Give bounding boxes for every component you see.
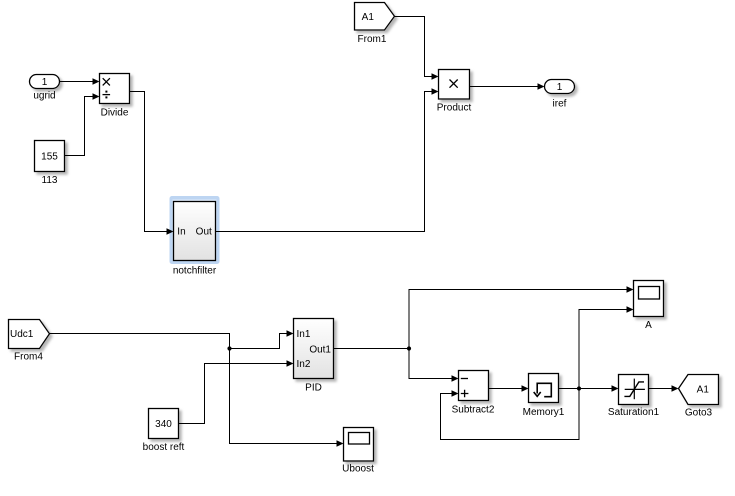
svg-text:notchfilter: notchfilter xyxy=(173,266,217,277)
subsystem notchfilter xyxy=(174,202,216,261)
svg-text:Udc1: Udc1 xyxy=(10,329,34,340)
svg-text:Goto3: Goto3 xyxy=(685,408,713,419)
svg-text:A1: A1 xyxy=(697,385,710,396)
junction dot on Udc1 wire xyxy=(227,346,231,350)
svg-text:Subtract2: Subtract2 xyxy=(452,405,495,416)
outport iref xyxy=(545,80,575,94)
svg-text:Divide: Divide xyxy=(101,108,129,119)
wire Subtract2 output to Memory1 xyxy=(489,385,529,392)
svg-text:PID: PID xyxy=(305,383,322,394)
scope Uboost xyxy=(344,428,374,462)
wire Product output to iref outport xyxy=(470,83,545,90)
wire Saturation1 output to Goto3 xyxy=(649,385,679,392)
wire feedback junction down and around to Subtract2 plus input xyxy=(441,389,580,440)
constant 340 boost reft xyxy=(149,409,179,439)
subsystem notchfilter selection halo xyxy=(170,196,220,264)
wire Divide output to notchfilter In xyxy=(130,92,174,235)
svg-text:155: 155 xyxy=(41,152,58,163)
svg-text:From1: From1 xyxy=(358,34,387,45)
svg-text:From4: From4 xyxy=(14,352,43,363)
wire 340 constant to PID In2 xyxy=(179,360,294,423)
block Memory1 xyxy=(529,374,559,403)
svg-text:113: 113 xyxy=(42,175,58,186)
svg-text:340: 340 xyxy=(155,419,172,430)
svg-text:Memory1: Memory1 xyxy=(523,407,565,418)
svg-text:Product: Product xyxy=(437,103,472,114)
svg-text:In2: In2 xyxy=(297,359,311,370)
wire From1 to Product input 1 xyxy=(395,17,439,80)
svg-text:Out1: Out1 xyxy=(309,345,331,356)
svg-text:Saturation1: Saturation1 xyxy=(608,407,660,418)
svg-text:ugrid: ugrid xyxy=(33,91,55,102)
wire junction up to scope A input 2 xyxy=(579,306,634,388)
svg-text:1: 1 xyxy=(42,77,48,88)
svg-text:A: A xyxy=(645,320,652,331)
svg-text:In: In xyxy=(177,227,185,238)
junction dot on PID output wire xyxy=(407,346,411,350)
wire ugrid to Divide input 1 xyxy=(60,78,100,85)
from tag Udc1 From4 xyxy=(9,320,50,349)
wire junction up to scope A input 1 xyxy=(409,286,634,348)
scope A xyxy=(634,281,664,317)
wire PID Out1 to junction xyxy=(334,348,410,350)
svg-text:Uboost: Uboost xyxy=(342,464,374,475)
svg-text:A1: A1 xyxy=(362,12,375,23)
svg-text:Out: Out xyxy=(196,227,212,238)
subsystem PID xyxy=(294,319,334,379)
svg-text:boost reft: boost reft xyxy=(143,442,185,453)
block Saturation1 xyxy=(619,375,649,405)
svg-text:iref: iref xyxy=(553,99,567,110)
wire notchfilter Out to Product input 2 xyxy=(216,88,439,231)
block Divide xyxy=(100,74,130,104)
svg-text:In1: In1 xyxy=(297,329,311,340)
constant 155 xyxy=(35,141,65,172)
wire 155 constant to Divide input 2 xyxy=(65,93,100,155)
goto tag Goto3 xyxy=(679,375,719,405)
block Product xyxy=(439,70,470,100)
block Subtract2 xyxy=(459,371,489,401)
from tag From1 xyxy=(355,3,395,31)
inport ugrid xyxy=(30,75,60,89)
wire junction down to Subtract2 minus input xyxy=(409,349,459,382)
wire Udc1 From4 to junction and down to Uboost scope xyxy=(50,334,344,447)
svg-text:1: 1 xyxy=(557,82,563,93)
junction dot on Memory1 output wire xyxy=(577,386,581,390)
wire Memory1 output to Saturation1 xyxy=(559,385,619,392)
wire junction to PID In1 xyxy=(230,330,294,348)
